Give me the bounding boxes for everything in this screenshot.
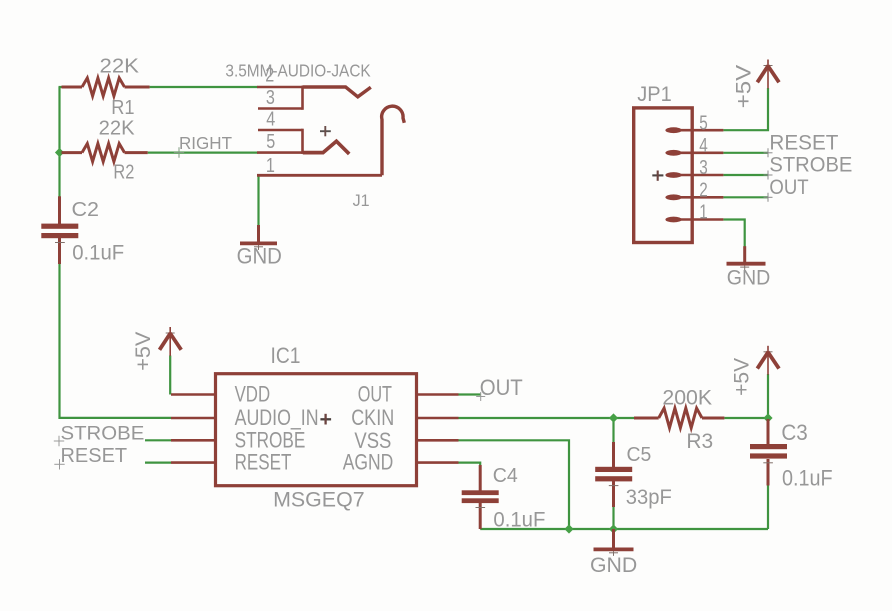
connector J1 pin 4 number <box>266 109 275 131</box>
svg-text:4: 4 <box>699 135 708 157</box>
svg-text:GND: GND <box>727 266 771 290</box>
connector JP1 pin pads <box>665 127 681 222</box>
wire +5V right down to junction <box>767 374 769 419</box>
connector JP1 body <box>634 108 693 243</box>
power +5V at IC1 <box>160 327 182 356</box>
svg-text:OUT: OUT <box>480 375 523 400</box>
label RIGHT origin cross <box>174 147 184 157</box>
label OUT net at IC <box>480 375 523 400</box>
op-amp IC1 pin VSS label <box>354 428 391 453</box>
wire R1 to J1 pin2 <box>150 86 258 88</box>
connector J1 title 3.5MM-AUDIO-JACK <box>225 61 371 81</box>
op-amp IC1 pin AUDIO_IN label <box>235 405 319 430</box>
capacitor C5 leads <box>612 442 615 507</box>
connector JP1 origin cross <box>652 171 663 181</box>
capacitor C5 name <box>627 444 652 466</box>
svg-text:JP1: JP1 <box>637 82 672 106</box>
label RESET net left <box>61 445 128 467</box>
node junction R3/C3/+5V <box>763 413 772 422</box>
connector J1 pin 2 stub <box>257 86 303 89</box>
wire STROBE net to IC <box>145 439 171 441</box>
op-amp IC1 pin OUT stub <box>417 393 459 396</box>
capacitor C4 value 0.1uF <box>493 509 545 532</box>
op-amp IC1 pin VDD stub <box>171 393 216 396</box>
power +5V at IC1 text <box>132 332 155 371</box>
connector JP1 pin 4 number <box>699 135 708 157</box>
label RESET at JP1 <box>769 132 838 155</box>
label STROBE net left <box>61 423 145 444</box>
op-amp IC1 pin CKIN stub <box>417 417 459 420</box>
capacitor C3 plates <box>750 444 787 459</box>
svg-text:RESET: RESET <box>61 445 128 467</box>
resistor R2 zigzag <box>82 144 125 162</box>
connector J1 pin 3 number <box>266 87 275 109</box>
capacitor C2 value 0.1uF <box>72 241 124 264</box>
label OUT JP1 origin cross <box>764 193 773 202</box>
svg-text:MSGEQ7: MSGEQ7 <box>273 488 365 512</box>
wire JP1 pin1 to GND <box>723 220 744 248</box>
svg-text:OUT: OUT <box>769 176 808 199</box>
connector J1 pin 4 stub <box>258 129 303 132</box>
ground at bottom rail <box>594 529 634 556</box>
wire J1 pin1 to GND <box>257 176 259 226</box>
svg-text:C4: C4 <box>493 465 518 487</box>
wire RESET net to IC <box>145 462 171 464</box>
svg-text:RESET: RESET <box>769 132 838 155</box>
op-amp IC1 pin RESET stub <box>171 461 216 464</box>
label STROBE at JP1 <box>769 154 852 177</box>
svg-text:AUDIO_IN: AUDIO_IN <box>235 405 319 430</box>
capacitor C5 plates <box>595 467 632 482</box>
connector J1 pin 5 stub <box>257 151 303 154</box>
resistor R2 value 22K <box>99 118 136 140</box>
capacitor C2 pin mark <box>55 242 65 244</box>
node junction VSS/bottom rail <box>564 524 573 533</box>
capacitor C4 name <box>493 465 518 487</box>
svg-text:OUT: OUT <box>358 381 392 406</box>
wire left rail junction to C2 <box>58 153 60 198</box>
svg-text:5: 5 <box>699 112 708 134</box>
wire JP1 pin4 RESET <box>723 152 768 154</box>
resistor R3 leads <box>634 417 724 420</box>
capacitor C2 plates <box>41 224 78 239</box>
ground at JP1 text <box>727 266 771 290</box>
node junction CKIN/R3/C5 <box>609 413 618 422</box>
capacitor C3 pin mark <box>763 462 773 464</box>
op-amp IC1 pin CKIN label <box>351 405 394 430</box>
svg-text:CKIN: CKIN <box>351 405 394 430</box>
svg-text:+5V: +5V <box>132 332 155 371</box>
svg-text:0.1uF: 0.1uF <box>782 466 833 491</box>
wire +5V to VDD <box>169 356 171 395</box>
resistor R2 leads <box>62 151 148 154</box>
svg-text:C5: C5 <box>627 444 652 466</box>
svg-text:STROBE: STROBE <box>769 154 852 177</box>
op-amp IC1 pin VDD label <box>235 382 271 407</box>
wire JP1 pin3 STROBE <box>723 174 768 176</box>
op-amp IC1 pin AGND stub <box>417 461 459 464</box>
svg-text:3: 3 <box>266 87 275 109</box>
wire CKIN to R3 junction <box>459 417 635 419</box>
resistor R3 zigzag <box>659 408 702 428</box>
svg-text:STROBE: STROBE <box>61 423 145 444</box>
op-amp IC1 pin STROBE stub <box>171 439 216 442</box>
ground at JP1 <box>727 246 766 270</box>
op-amp IC1 body rectangle <box>216 374 417 486</box>
capacitor C3 value 0.1uF <box>782 466 833 491</box>
wire JP1 pin5 to +5V <box>723 88 768 130</box>
connector JP1 pin 2 number <box>699 180 708 202</box>
wire C3 bottom to rail <box>767 485 769 530</box>
svg-text:4: 4 <box>266 109 275 131</box>
node junction C5/GND/bottom rail <box>609 524 618 533</box>
power +5V at C3 text <box>730 358 753 396</box>
connector J1 origin cross <box>320 126 331 136</box>
svg-text:22K: 22K <box>99 118 136 140</box>
wire VSS down to bottom rail <box>459 440 570 529</box>
svg-text:AGND: AGND <box>343 450 394 475</box>
svg-text:0.1uF: 0.1uF <box>493 509 545 532</box>
op-amp IC1 origin cross <box>320 414 331 425</box>
ground at bottom text <box>590 553 637 577</box>
power +5V at JP1 text <box>733 65 756 109</box>
wire AUDIO_IN net (C2 down, across to IC) <box>60 264 172 418</box>
resistor R3 value 200K <box>662 387 712 410</box>
svg-text:0.1uF: 0.1uF <box>72 241 124 264</box>
connector J1 pin 1 stub and sleeve line <box>257 174 382 177</box>
ground at J1 text <box>237 244 282 269</box>
connector J1 pins 4-5 join <box>301 129 304 154</box>
connector J1 sleeve hook <box>382 106 405 175</box>
ground at J1 <box>240 225 277 250</box>
connector J1 pin 1 number <box>266 155 275 177</box>
capacitor C4 pin mark <box>476 507 486 509</box>
connector J1 name <box>353 192 370 210</box>
svg-text:1: 1 <box>266 155 275 177</box>
capacitor C2 name <box>72 199 100 221</box>
wire AGND to C4 <box>459 463 481 466</box>
svg-text:RESET: RESET <box>235 450 292 475</box>
svg-text:GND: GND <box>237 244 282 269</box>
wire bottom rail <box>480 528 768 530</box>
svg-text:22K: 22K <box>100 54 140 77</box>
wire C5 top lead to junction <box>612 418 614 443</box>
connector J1 pin 5 number <box>266 131 275 153</box>
resistor R1 name <box>111 97 134 119</box>
label RIGHT net name <box>179 133 232 153</box>
capacitor C3 leads <box>767 419 770 486</box>
op-amp IC1 pin STROBE label <box>235 428 306 453</box>
svg-text:+5V: +5V <box>730 358 753 396</box>
capacitor C2 leads <box>58 196 61 264</box>
resistor R1 leads <box>62 86 150 89</box>
svg-text:5: 5 <box>266 131 275 153</box>
svg-text:R1: R1 <box>111 97 134 119</box>
connector J1 ring contact <box>303 141 349 154</box>
wire left rail top (R1 to junction) <box>59 87 65 154</box>
label RESET origin cross <box>54 459 64 469</box>
resistor R1 zigzag <box>82 78 125 96</box>
capacitor C4 leads <box>479 465 482 529</box>
connector J1 tip contact <box>303 87 371 97</box>
svg-text:3.5MM-AUDIO-JACK: 3.5MM-AUDIO-JACK <box>225 61 371 81</box>
power +5V at C3 <box>757 346 779 375</box>
op-amp IC1 pin AGND label <box>343 450 394 475</box>
connector J1 pin 2 number <box>265 65 274 87</box>
wire C5 bottom to rail <box>612 507 614 530</box>
svg-text:1: 1 <box>699 202 708 224</box>
label OUT at JP1 <box>769 176 808 199</box>
svg-text:200K: 200K <box>662 387 712 410</box>
op-amp IC1 pin RESET label <box>235 450 292 475</box>
resistor R2 name <box>113 162 134 184</box>
svg-text:J1: J1 <box>353 192 370 210</box>
svg-text:R3: R3 <box>686 430 713 453</box>
label STROBE JP1 origin cross <box>764 171 773 180</box>
resistor R1 value 22K <box>100 54 140 77</box>
capacitor C4 plates <box>462 490 499 503</box>
label RESET JP1 origin cross <box>764 148 773 157</box>
label OUT origin cross <box>476 392 485 401</box>
capacitor C3 name <box>781 420 807 445</box>
connector J1 pin 3 stub <box>258 107 303 110</box>
svg-text:33pF: 33pF <box>626 485 672 509</box>
wire R3 to C3 junction <box>724 417 768 419</box>
capacitor C5 pin mark <box>609 485 619 487</box>
op-amp IC1 pin OUT label <box>358 381 392 406</box>
op-amp IC1 pin AUDIO_IN stub <box>171 417 216 420</box>
power +5V at JP1 <box>757 60 779 89</box>
op-amp IC1 value MSGEQ7 <box>273 488 365 512</box>
op-amp IC1 pin VSS stub <box>417 439 459 442</box>
svg-text:+5V: +5V <box>733 65 756 109</box>
svg-text:VDD: VDD <box>235 382 271 407</box>
wire JP1 pin2 OUT <box>723 196 768 198</box>
op-amp IC1 name <box>271 343 301 368</box>
resistor R3 name <box>686 430 713 453</box>
wire OUT from IC <box>459 393 482 395</box>
capacitor C5 value 33pF <box>626 485 672 509</box>
node junction R2/C2/R1 rail <box>55 148 64 157</box>
connector JP1 pin 1 number <box>699 202 708 224</box>
svg-text:C3: C3 <box>781 420 807 445</box>
connector JP1 pin 5 number <box>699 112 708 134</box>
svg-text:GND: GND <box>590 553 637 577</box>
svg-text:2: 2 <box>265 65 274 87</box>
svg-text:C2: C2 <box>72 199 100 221</box>
connector J1 pins 2-3 join <box>301 86 304 110</box>
wire RIGHT net R2 to J1 pin5 <box>148 152 258 154</box>
connector JP1 name <box>637 82 672 106</box>
svg-text:IC1: IC1 <box>271 343 301 368</box>
svg-text:3: 3 <box>699 157 708 179</box>
svg-text:RIGHT: RIGHT <box>179 133 232 153</box>
label STROBE origin cross <box>54 436 64 446</box>
connector JP1 pin 3 number <box>699 157 708 179</box>
connector JP1 pin stubs <box>678 130 723 219</box>
svg-text:2: 2 <box>699 180 708 202</box>
svg-text:R2: R2 <box>113 162 134 184</box>
